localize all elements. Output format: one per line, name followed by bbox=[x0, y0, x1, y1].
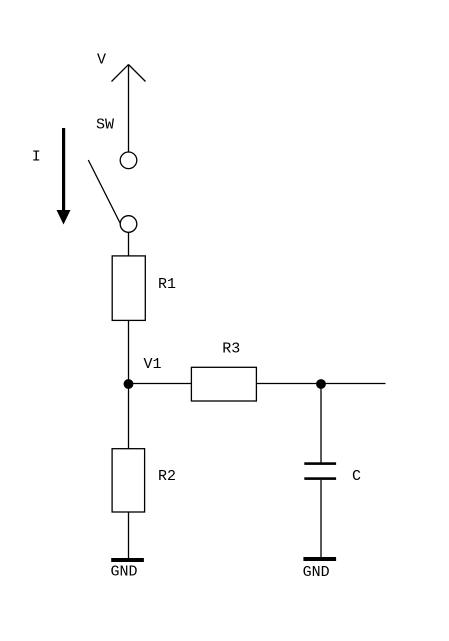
capacitor C bottom plate bbox=[304, 477, 336, 480]
wire junction to right output bbox=[321, 383, 386, 385]
wire capacitor to ground bbox=[320, 480, 322, 557]
wire R1 to node V1 bbox=[128, 320, 130, 384]
svg-text:R2: R2 bbox=[158, 468, 176, 485]
svg-text:R1: R1 bbox=[158, 276, 176, 293]
switch SW bottom terminal circle bbox=[120, 216, 137, 233]
resistor R1 bbox=[112, 256, 145, 321]
resistor R3 bbox=[191, 367, 256, 401]
wire junction down to capacitor bbox=[320, 384, 322, 463]
svg-text:GND: GND bbox=[111, 564, 138, 581]
wire R2 to ground bbox=[128, 512, 130, 558]
svg-text:V: V bbox=[97, 52, 106, 69]
power arrow V (arrowhead) bbox=[112, 65, 146, 82]
wire node V1 to R2 bbox=[128, 384, 130, 449]
ground bar (left) bbox=[111, 558, 144, 562]
current arrow I bbox=[57, 128, 71, 225]
svg-text:GND: GND bbox=[303, 564, 330, 581]
node V1 (junction dot) bbox=[124, 379, 134, 389]
svg-text:C: C bbox=[352, 468, 361, 485]
ground bar (right) bbox=[303, 557, 336, 561]
wire node V1 to R3 bbox=[129, 383, 192, 385]
resistor R2 bbox=[112, 449, 145, 512]
svg-text:I: I bbox=[32, 149, 41, 166]
svg-text:R3: R3 bbox=[222, 341, 240, 358]
switch SW lever bbox=[88, 160, 120, 224]
svg-text:V1: V1 bbox=[144, 356, 162, 373]
capacitor C top plate bbox=[304, 462, 336, 465]
wire switch to R1 bbox=[128, 232, 130, 256]
wire R3 to junction bbox=[256, 383, 321, 385]
svg-text:SW: SW bbox=[96, 116, 114, 133]
junction node (right) bbox=[316, 379, 326, 389]
wire supply shaft to switch bbox=[128, 65, 130, 153]
switch SW top terminal circle bbox=[120, 152, 137, 169]
